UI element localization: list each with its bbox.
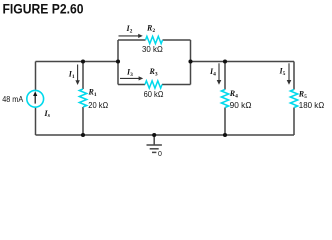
- wire: left branch vertical lower (source bottom lead): [35, 107, 37, 135]
- resistor R2 zigzag: [146, 36, 163, 43]
- junction dot node A (top of R1): [81, 59, 85, 63]
- wire: middle horizontal from node B to top-right corner: [191, 61, 295, 63]
- svg-text:FIGURE P2.60: FIGURE P2.60: [3, 1, 84, 17]
- svg-text:48 mA: 48 mA: [2, 94, 23, 104]
- wire: R5 branch leads: [293, 62, 295, 136]
- wire: top-left horizontal from source to node A: [36, 61, 119, 63]
- junction dot parallel-left: [116, 59, 120, 63]
- wire: parallel-section left bar: [117, 40, 119, 85]
- junction dot bottom of R1: [81, 133, 85, 137]
- wire: left branch vertical upper (source top lead): [35, 62, 37, 91]
- svg-text:90 kΩ: 90 kΩ: [230, 100, 252, 110]
- svg-text:60 kΩ: 60 kΩ: [144, 89, 164, 99]
- resistor R1 zigzag: [79, 89, 86, 107]
- junction dot top of R4: [223, 59, 227, 63]
- wire: R2 branch leads: [118, 39, 191, 41]
- junction dot bottom of R4: [223, 133, 227, 137]
- wire: bottom horizontal rail: [36, 134, 295, 136]
- resistor R3 zigzag: [145, 81, 162, 88]
- wire: R3 branch leads: [118, 84, 191, 86]
- ground: [147, 135, 162, 152]
- current arrow I2: [119, 34, 143, 38]
- svg-text:30 kΩ: 30 kΩ: [142, 44, 163, 54]
- current arrow I4: [217, 63, 222, 85]
- wire: R4 branch leads: [224, 62, 226, 136]
- wire: R1 branch leads: [82, 62, 84, 136]
- current source Is 48 mA: [27, 90, 44, 107]
- junction dot ground node: [152, 133, 156, 137]
- svg-text:0: 0: [158, 151, 162, 158]
- current arrow I1: [75, 65, 79, 86]
- resistor R4 zigzag: [221, 90, 228, 108]
- junction dot parallel-right: [188, 59, 192, 63]
- current arrow I3: [120, 76, 143, 80]
- current arrow I5: [287, 63, 292, 85]
- svg-text:180 kΩ: 180 kΩ: [299, 100, 325, 110]
- svg-text:20 kΩ: 20 kΩ: [88, 100, 108, 110]
- wire: parallel-section right bar: [190, 40, 192, 85]
- resistor R5 zigzag: [290, 90, 297, 108]
